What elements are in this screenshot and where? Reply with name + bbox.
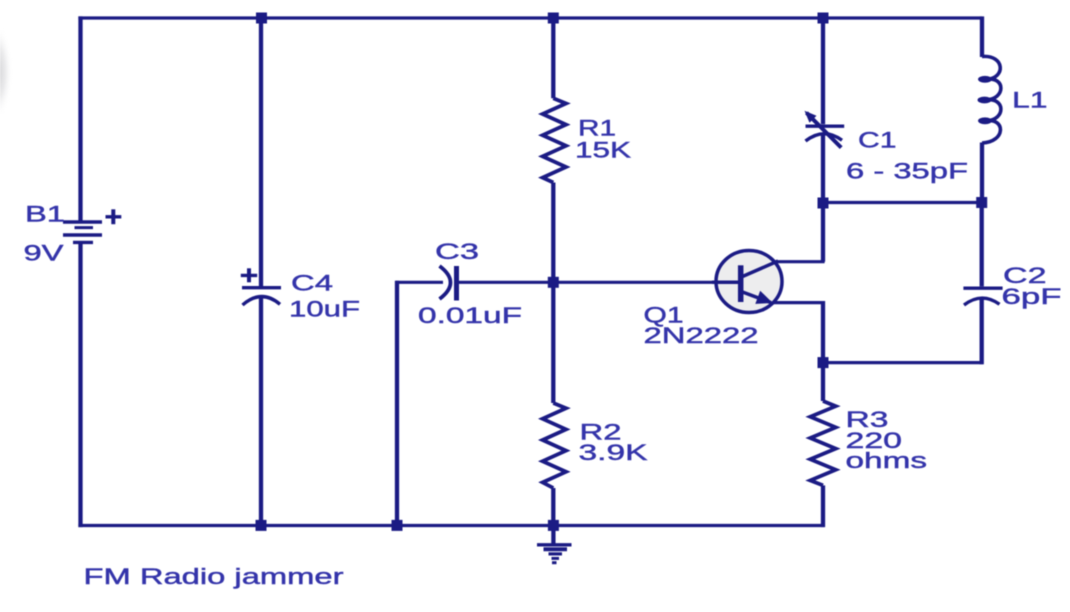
svg-text:3.9K: 3.9K [579,440,648,465]
svg-text:B1: B1 [25,202,65,227]
svg-text:C3: C3 [435,239,479,264]
svg-text:L1: L1 [1012,88,1048,113]
svg-text:FM Radio jammer: FM Radio jammer [84,564,344,589]
svg-text:6 - 35pF: 6 - 35pF [846,159,968,184]
svg-text:2N2222: 2N2222 [644,323,759,348]
svg-text:C1: C1 [858,128,897,153]
svg-text:C4: C4 [291,271,333,296]
svg-text:0.01uF: 0.01uF [418,303,522,328]
svg-text:6pF: 6pF [1002,284,1062,309]
svg-text:15K: 15K [575,137,631,162]
svg-text:ohms: ohms [846,448,928,473]
svg-text:9V: 9V [24,241,64,266]
svg-text:10uF: 10uF [289,297,360,322]
